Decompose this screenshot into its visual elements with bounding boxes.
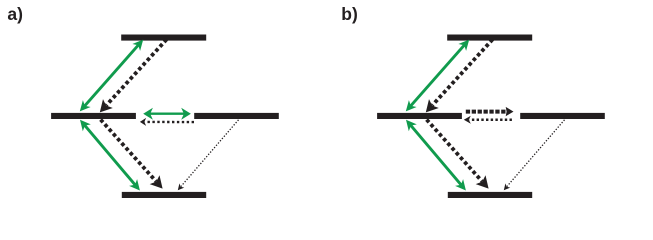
gray dotted arrow middle-left -> bottom (panel a) [101, 120, 163, 189]
gray dotted arrow middle-left -> bottom (panel b) [427, 120, 489, 189]
gray dotted horizontal arrow pointing left (panel a) [140, 118, 194, 126]
svg-text:b): b) [341, 4, 358, 24]
gray dotted arrow top -> middle-left (panel b) [426, 39, 493, 112]
thin gray dotted arrow middle-right -> bottom (panel b) [504, 120, 565, 190]
green double arrow middle-left <-> bottom (panel b) [406, 120, 466, 191]
bottom level bar (panel a) [122, 192, 206, 198]
green double arrow middle-left <-> bottom (panel a) [80, 120, 140, 191]
thin gray dotted arrow middle-right -> bottom (panel a) [178, 120, 239, 190]
top level bar (panel b) [447, 35, 532, 41]
middle-right level bar (panel b) [520, 113, 605, 119]
middle-left level bar (panel b) [377, 113, 462, 119]
gray dotted arrow top -> middle-left (panel a) [100, 39, 167, 112]
bottom level bar (panel b) [448, 192, 532, 198]
gray dotted horizontal arrow pointing left (panel b) [464, 116, 512, 124]
green horizontal double arrow between middle levels (panel a) [143, 108, 191, 120]
top level bar (panel a) [121, 35, 206, 41]
gray thick dashed horizontal arrow pointing right (panel b) [466, 107, 514, 116]
middle-right level bar (panel a) [194, 113, 279, 119]
svg-text:a): a) [7, 4, 23, 24]
green double arrow middle-left <-> top (panel b) [406, 40, 469, 112]
green double arrow middle-left <-> top (panel a) [80, 40, 143, 112]
middle-left level bar (panel a) [51, 113, 136, 119]
